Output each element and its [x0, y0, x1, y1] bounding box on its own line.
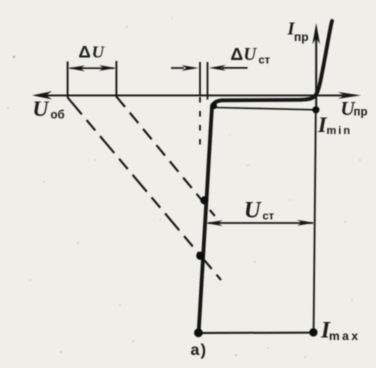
dot at knee (I_min on branch) [210, 102, 217, 109]
dU_st tick right [207, 62, 209, 100]
U_st double arrow [208, 222, 313, 224]
svg-text:а): а) [191, 342, 208, 359]
y-axis (current axis) [315, 38, 317, 111]
dashed load line 1 (from left dU tick) [68, 98, 221, 281]
dU double arrow [70, 67, 114, 69]
svg-text:об: об [51, 110, 65, 122]
dot bottom-left (I_max on branch) [194, 328, 203, 337]
y-axis top arrowhead [312, 23, 320, 44]
svg-text:U: U [244, 198, 262, 223]
svg-text:ΔU: ΔU [79, 43, 106, 62]
dU tick left [67, 62, 69, 98]
dU_st left arrow (points right) [171, 67, 184, 69]
dU_st right arrow (points left) [222, 67, 248, 69]
dashed load line 2 (from right dU tick) [116, 97, 214, 217]
svg-text:U: U [33, 96, 50, 121]
dU_st tick left [199, 62, 201, 95]
svg-text:пр: пр [294, 30, 309, 44]
diode characteristic curve (thick) [199, 21, 332, 333]
x-axis (voltage axis) [40, 94, 344, 96]
x-axis left arrowhead (U_ob direction) [32, 91, 52, 99]
dot I_min on axis [312, 106, 319, 113]
I_min level line (knee to axis) [215, 108, 316, 110]
dot B on branch [196, 252, 204, 260]
bottom line (I_max level) [199, 332, 314, 334]
dashed vertical at stabilization voltage [199, 97, 201, 153]
svg-text:ст: ст [259, 55, 271, 67]
svg-text:max: max [329, 329, 361, 343]
svg-text:ст: ст [263, 211, 275, 223]
dot bottom-right (I_max) [309, 328, 317, 336]
x-axis right arrowhead (U_pr direction) [338, 92, 361, 99]
svg-text:min: min [327, 125, 353, 137]
right vertical line (I_min to I_max) [314, 110, 316, 333]
dU tick right [115, 61, 117, 98]
svg-text:пр: пр [354, 107, 368, 119]
dot A on branch [200, 196, 208, 204]
svg-text:ΔU: ΔU [231, 44, 258, 64]
